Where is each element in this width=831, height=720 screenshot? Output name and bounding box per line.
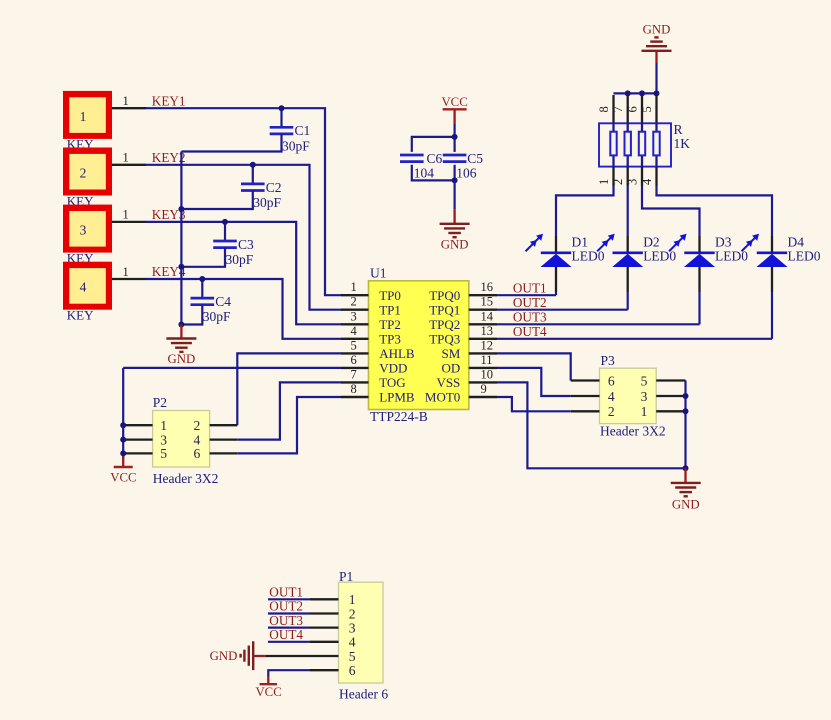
svg-text:1: 1: [641, 404, 648, 419]
svg-text:P1: P1: [339, 569, 353, 584]
svg-text:TPQ1: TPQ1: [429, 302, 460, 317]
svg-text:TOG: TOG: [379, 375, 405, 390]
svg-text:1: 1: [122, 208, 128, 222]
svg-text:TP3: TP3: [379, 332, 401, 347]
svg-text:TPQ0: TPQ0: [429, 288, 460, 303]
svg-text:R: R: [674, 122, 683, 137]
svg-text:5: 5: [641, 373, 648, 388]
svg-text:6: 6: [626, 106, 640, 112]
svg-text:C3: C3: [238, 237, 254, 252]
svg-text:2: 2: [80, 166, 87, 181]
svg-text:6: 6: [608, 373, 615, 388]
svg-text:OD: OD: [442, 361, 461, 376]
svg-text:VDD: VDD: [379, 361, 407, 376]
svg-text:LED0: LED0: [788, 248, 821, 263]
svg-text:10: 10: [481, 367, 494, 381]
svg-text:14: 14: [481, 309, 494, 323]
svg-text:2: 2: [349, 606, 356, 621]
svg-text:OUT4: OUT4: [513, 324, 547, 339]
svg-text:D2: D2: [643, 235, 660, 250]
svg-text:104: 104: [414, 166, 435, 181]
svg-text:4: 4: [349, 635, 356, 650]
svg-text:4: 4: [194, 432, 201, 447]
svg-text:OUT3: OUT3: [269, 613, 303, 628]
svg-text:TP1: TP1: [379, 302, 401, 317]
svg-text:30pF: 30pF: [253, 195, 281, 210]
svg-text:5: 5: [160, 446, 167, 461]
svg-text:2: 2: [608, 404, 615, 419]
svg-text:9: 9: [481, 382, 487, 396]
svg-text:1: 1: [597, 179, 611, 185]
svg-text:3: 3: [349, 620, 356, 635]
svg-text:3: 3: [350, 309, 356, 323]
svg-text:TTP224-B: TTP224-B: [370, 409, 428, 424]
svg-text:1: 1: [122, 151, 128, 165]
svg-text:LED0: LED0: [643, 248, 676, 263]
svg-text:MOT0: MOT0: [425, 390, 460, 405]
svg-text:OUT4: OUT4: [269, 627, 303, 642]
svg-text:OUT1: OUT1: [513, 280, 547, 295]
svg-text:P3: P3: [601, 353, 616, 368]
svg-text:D1: D1: [572, 235, 589, 250]
svg-text:Header 3X2: Header 3X2: [600, 424, 666, 439]
svg-text:1K: 1K: [674, 136, 691, 151]
svg-text:VSS: VSS: [436, 375, 460, 390]
svg-text:8: 8: [350, 382, 356, 396]
svg-text:3: 3: [80, 223, 87, 238]
svg-text:13: 13: [481, 324, 494, 338]
svg-text:7: 7: [350, 367, 356, 381]
svg-text:U1: U1: [370, 265, 387, 280]
svg-text:8: 8: [597, 106, 611, 112]
svg-text:4: 4: [640, 178, 654, 185]
svg-text:11: 11: [481, 353, 493, 367]
svg-text:LPMB: LPMB: [379, 390, 415, 405]
svg-text:SM: SM: [442, 346, 461, 361]
svg-text:6: 6: [350, 353, 356, 367]
svg-text:Header 3X2: Header 3X2: [153, 471, 219, 486]
svg-text:VCC: VCC: [255, 685, 281, 699]
svg-text:5: 5: [640, 106, 654, 112]
svg-text:3: 3: [626, 179, 640, 185]
svg-text:6: 6: [194, 446, 201, 461]
svg-text:VCC: VCC: [441, 95, 467, 109]
svg-text:GND: GND: [672, 497, 700, 511]
svg-text:AHLB: AHLB: [379, 346, 415, 361]
svg-text:2: 2: [350, 295, 356, 309]
svg-text:30pF: 30pF: [226, 252, 254, 267]
svg-text:GND: GND: [441, 237, 469, 251]
svg-text:1: 1: [349, 592, 356, 607]
svg-text:12: 12: [481, 338, 494, 352]
svg-text:1: 1: [122, 265, 128, 279]
svg-text:7: 7: [611, 106, 625, 112]
svg-text:OUT2: OUT2: [269, 599, 303, 614]
svg-text:1: 1: [122, 94, 128, 108]
svg-text:4: 4: [80, 280, 87, 295]
svg-text:OUT2: OUT2: [513, 295, 547, 310]
svg-text:Header 6: Header 6: [339, 687, 388, 702]
svg-text:15: 15: [481, 295, 494, 309]
svg-text:2: 2: [194, 418, 201, 433]
svg-text:GND: GND: [168, 352, 196, 366]
svg-text:C5: C5: [467, 151, 483, 166]
svg-text:KEY1: KEY1: [152, 93, 186, 108]
svg-text:P2: P2: [153, 395, 167, 410]
svg-text:3: 3: [641, 389, 648, 404]
svg-text:VCC: VCC: [110, 471, 136, 485]
svg-text:1: 1: [160, 418, 167, 433]
svg-text:D3: D3: [715, 235, 732, 250]
svg-text:GND: GND: [210, 649, 238, 663]
svg-text:106: 106: [456, 166, 477, 181]
svg-text:C1: C1: [295, 123, 311, 138]
svg-text:OUT3: OUT3: [513, 310, 547, 325]
svg-text:5: 5: [349, 649, 356, 664]
svg-text:LED0: LED0: [572, 248, 605, 263]
svg-text:TP2: TP2: [379, 317, 401, 332]
svg-text:TP0: TP0: [379, 288, 401, 303]
svg-text:GND: GND: [643, 23, 671, 37]
svg-text:KEY: KEY: [67, 308, 94, 323]
svg-text:3: 3: [160, 432, 167, 447]
svg-text:4: 4: [608, 389, 615, 404]
svg-text:30pF: 30pF: [203, 309, 231, 324]
svg-text:2: 2: [611, 179, 625, 185]
svg-text:C6: C6: [427, 151, 443, 166]
svg-text:TPQ2: TPQ2: [429, 317, 460, 332]
svg-text:4: 4: [350, 324, 357, 338]
svg-text:C4: C4: [215, 294, 231, 309]
svg-text:TPQ3: TPQ3: [429, 332, 460, 347]
svg-text:1: 1: [80, 109, 87, 124]
svg-text:C2: C2: [266, 180, 282, 195]
svg-text:30pF: 30pF: [282, 138, 310, 153]
svg-text:5: 5: [350, 338, 356, 352]
svg-text:D4: D4: [788, 235, 805, 250]
svg-text:16: 16: [481, 280, 494, 294]
svg-text:OUT1: OUT1: [269, 585, 303, 600]
svg-text:1: 1: [350, 280, 356, 294]
svg-text:6: 6: [349, 663, 356, 678]
